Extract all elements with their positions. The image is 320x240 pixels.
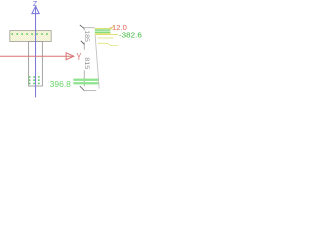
- yellow leader polyline lower: [98, 43, 118, 45]
- extension line bottom: [84, 90, 96, 92]
- dimension line segments: [83, 28, 85, 86]
- yellow leader line middle: [98, 37, 114, 39]
- svg-text:396.8: 396.8: [50, 80, 72, 89]
- bottom stress band: [73, 79, 99, 85]
- svg-text:Y: Y: [76, 52, 81, 63]
- flange of T-section: [10, 31, 51, 42]
- svg-text:185: 185: [83, 30, 90, 42]
- top stress bar yellow top border: [95, 28, 111, 30]
- web of T-section: [29, 42, 43, 87]
- background: [0, 0, 149, 100]
- diagonal neutral axis projection line: [95, 35, 99, 89]
- dimension tick top: [80, 25, 84, 29]
- top stress bar yellow bottom border / leader: [95, 33, 111, 35]
- svg-text:Z: Z: [33, 1, 38, 8]
- top stress bar green fill: [95, 29, 111, 33]
- svg-text:815: 815: [83, 57, 90, 69]
- Y axis line: [0, 55, 74, 57]
- extension line top: [83, 27, 94, 29]
- Z axis arrowhead: [32, 6, 39, 13]
- svg-text:-382.6: -382.6: [119, 31, 142, 40]
- dimension tick middle: [81, 41, 85, 45]
- rebar dots flange: [12, 33, 48, 35]
- yellow tick to -12.0: [110, 26, 114, 30]
- rebar dots web bottom: [29, 76, 40, 84]
- Z axis line: [35, 6, 37, 97]
- Y axis arrowhead: [66, 53, 74, 60]
- dimension tick bottom: [80, 86, 84, 90]
